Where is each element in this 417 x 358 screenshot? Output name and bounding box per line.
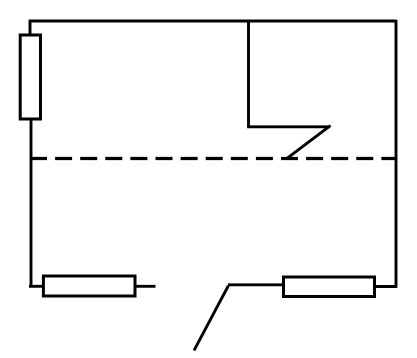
resistor R1 (vertical, top left) (20, 35, 40, 119)
wire: left vertical from R1 bottom to bottom-left corner (30, 119, 33, 288)
wire: left corner stub down to resistor R1 (29, 20, 32, 36)
wire: right vertical side from top bus to bottom-right corner (395, 20, 398, 288)
wire: switch S1 fixed arm (horizontal) (247, 125, 330, 128)
mechanical link: dashed line between left and right branches (30, 157, 396, 160)
wire: middle vertical drop from top bus to switch S1 (247, 20, 250, 127)
wire: stub right of R2 (open contact) (135, 285, 156, 288)
resistor R2 (horizontal, bottom left) (43, 276, 135, 296)
resistor R3 (horizontal, bottom right) (284, 277, 375, 297)
switch S2 blade (open, bottom centre) (194, 286, 228, 351)
wire: bottom-right run from switch S2 pivot to resistor R3 (228, 283, 285, 286)
wire: bottom-left corner to resistor R2 (29, 285, 44, 288)
wire: stub from R3 to bottom-right corner (375, 285, 398, 288)
wire: top bus from left branch to right branch (29, 20, 396, 23)
switch S1 blade (diagonal to dashed link) (288, 126, 331, 159)
